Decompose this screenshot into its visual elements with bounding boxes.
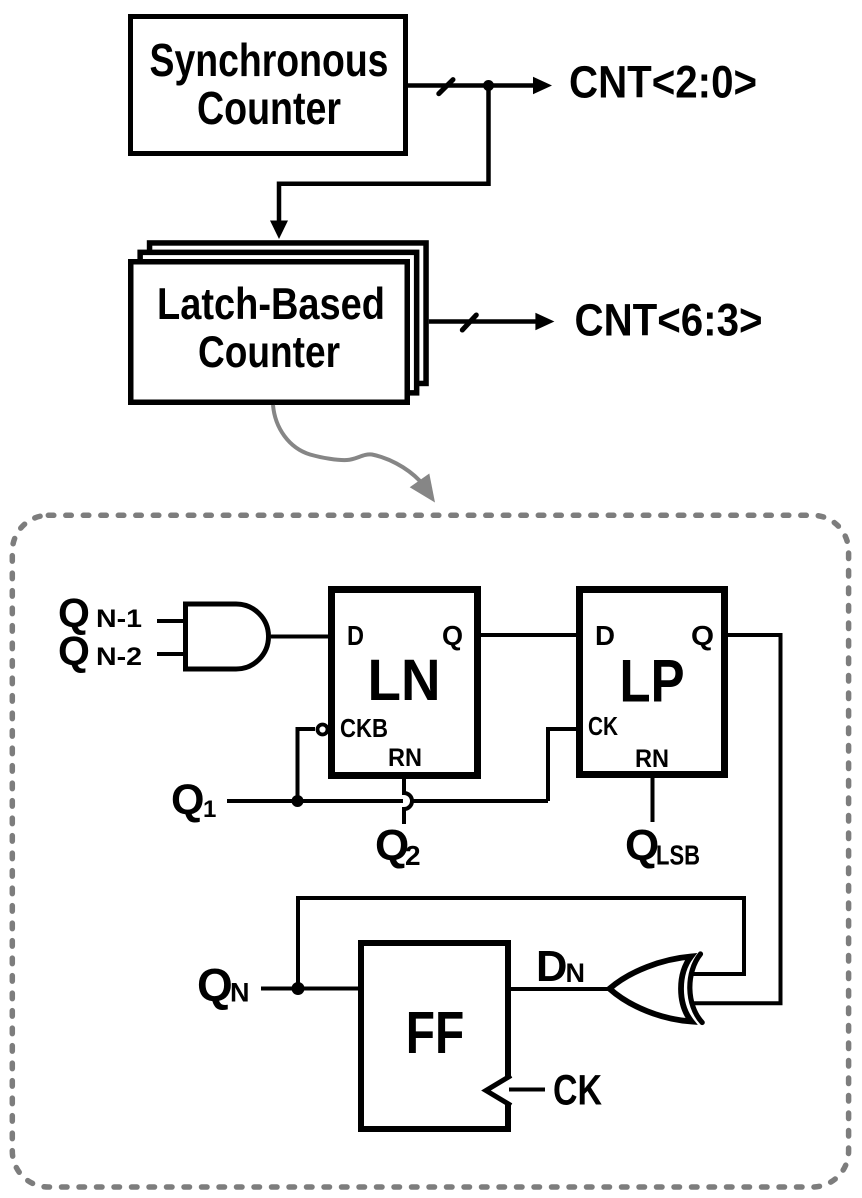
wire AND output to LN.D — [271, 635, 331, 639]
svg-text:Q: Q — [625, 821, 659, 870]
wire Q1 up to LP.CK — [548, 729, 578, 801]
arrowhead to CNT<2:0> — [533, 77, 552, 95]
svg-text:Counter: Counter — [198, 328, 340, 377]
svg-text:Synchronous: Synchronous — [150, 34, 389, 86]
svg-text:LN: LN — [368, 648, 441, 713]
AND gate G1 — [186, 604, 269, 669]
latch LP — [580, 590, 725, 775]
junction node on CNT<2:0> bus — [483, 80, 494, 91]
wire bus CNT<6:3> — [429, 319, 537, 324]
wire LP.RN stub — [651, 778, 655, 822]
wire FF.D to XOR output, net DN — [508, 987, 609, 991]
wire Q1 horizontal (left of hop) — [227, 799, 403, 803]
svg-text:Q: Q — [58, 628, 90, 674]
wire Q1 horizontal (right of hop) — [412, 799, 549, 803]
svg-text:LSB: LSB — [656, 840, 700, 871]
svg-text:N-2: N-2 — [96, 643, 142, 671]
clock edge triangle on FF — [486, 1076, 511, 1106]
junction node on QN — [292, 982, 305, 995]
svg-text:Latch-Based: Latch-Based — [157, 280, 385, 329]
svg-text:Counter: Counter — [197, 82, 341, 134]
svg-text:Q: Q — [197, 959, 233, 1011]
svg-text:LP: LP — [620, 648, 685, 715]
net label Q LSB — [625, 821, 700, 871]
latch LN — [332, 590, 478, 776]
flip-flop FF — [361, 943, 508, 1129]
svg-text:CKB: CKB — [340, 713, 388, 743]
svg-text:Q: Q — [691, 620, 714, 651]
wire stub input Q N-1 — [157, 619, 183, 623]
wire branch from junction down to Latch-Based Counter — [279, 86, 489, 223]
svg-text:CK: CK — [588, 711, 618, 741]
junction node on Q1 — [292, 795, 304, 807]
block U1 Synchronous Counter — [131, 17, 406, 154]
svg-text:RN: RN — [388, 744, 422, 772]
svg-text:D: D — [347, 620, 364, 651]
wire QN into FF — [261, 987, 361, 991]
svg-text:1: 1 — [203, 796, 216, 823]
wire LN.RN stub with hop over Q1 — [404, 779, 412, 824]
svg-text:CNT<6:3>: CNT<6:3> — [575, 295, 763, 346]
svg-text:D: D — [536, 943, 567, 991]
svg-text:N: N — [566, 958, 586, 988]
wire feedback QN to XOR input A — [298, 898, 744, 989]
wire LP.Q down to XOR input B — [691, 635, 781, 1003]
dashed detail region border — [12, 515, 848, 1187]
net label QN — [197, 959, 250, 1011]
input label Q N-2 — [58, 628, 142, 674]
svg-text:2: 2 — [405, 840, 421, 871]
svg-text:CNT<2:0>: CNT<2:0> — [569, 57, 757, 108]
svg-text:N: N — [230, 978, 250, 1008]
wire Q1 branch up to CKB bubble — [298, 729, 316, 801]
input label Q N-1 — [58, 590, 142, 636]
bus slash marker — [439, 80, 453, 94]
wire CK into FF — [509, 1088, 545, 1092]
block U2 Latch-Based Counter (stacked) — [131, 243, 426, 402]
svg-text:RN: RN — [635, 745, 669, 773]
XOR gate G2 (points left) — [610, 954, 703, 1023]
detail callout arrow (gray) — [273, 405, 435, 503]
net label Q1 — [171, 776, 216, 824]
svg-text:FF: FF — [406, 999, 465, 1066]
bus slash marker — [462, 315, 476, 330]
svg-text:D: D — [595, 620, 615, 651]
svg-text:Q: Q — [171, 776, 204, 824]
arrowhead to CNT<6:3> — [535, 313, 554, 331]
net label DN — [536, 943, 585, 991]
svg-text:N-1: N-1 — [96, 605, 142, 633]
wire stub input Q N-2 — [157, 652, 183, 656]
wire LN.Q to LP.D — [481, 633, 578, 637]
net label Q2 — [375, 821, 421, 871]
inverter bubble on LN.CKB — [318, 725, 328, 735]
arrowhead into Latch-Based Counter — [270, 221, 288, 240]
svg-text:Q: Q — [442, 620, 463, 651]
wire bus CNT<2:0> — [408, 83, 534, 88]
svg-text:CK: CK — [553, 1067, 602, 1115]
